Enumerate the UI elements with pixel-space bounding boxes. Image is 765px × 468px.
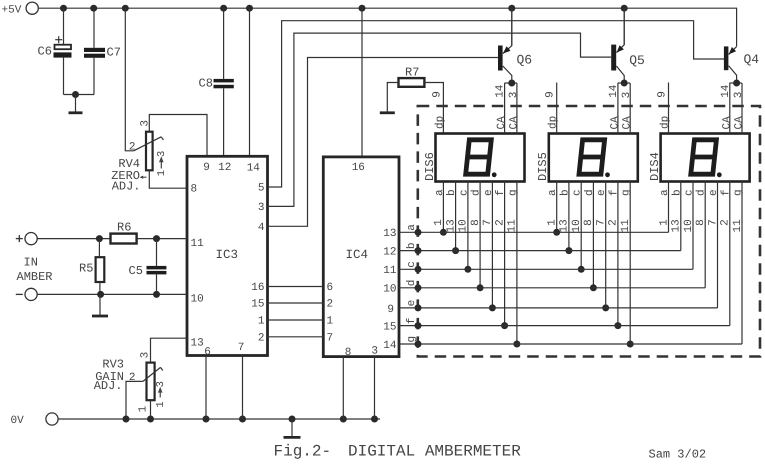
DIS6 CA pins 14 and 3 [505, 83, 517, 134]
bus line c [399, 266, 693, 273]
potentiometer RV3 [143, 363, 163, 401]
DIS6 segment letters [434, 189, 520, 196]
svg-text:11: 11 [620, 219, 632, 233]
7-segment display DIS5 [536, 134, 638, 182]
svg-text:8: 8 [470, 219, 482, 226]
svg-text:1: 1 [658, 219, 670, 226]
svg-text:8: 8 [345, 347, 352, 359]
RV4 pin 3 label [140, 120, 152, 127]
svg-text:3: 3 [155, 381, 167, 387]
svg-text:8: 8 [583, 219, 595, 226]
svg-text:10: 10 [683, 219, 695, 232]
svg-text:1: 1 [156, 170, 168, 176]
svg-text:16: 16 [352, 162, 365, 174]
wire + input to R6 [37, 235, 110, 242]
RV3 pin 2 label [129, 372, 136, 384]
svg-text:DIS6: DIS6 [423, 152, 437, 181]
caption Fig.2 DIGITAL AMBERMETER [274, 443, 522, 461]
IC3 right pin numbers 5 3 4 16 15 1 2 [251, 183, 265, 345]
wire 0V rail [58, 418, 380, 420]
svg-text:f: f [406, 317, 418, 324]
svg-text:g: g [733, 189, 745, 196]
DIS6 segment pin wires a-g [443, 182, 517, 345]
svg-text:a: a [659, 189, 671, 196]
svg-text:Sam 3/02: Sam 3/02 [649, 448, 707, 462]
svg-text:6: 6 [327, 282, 334, 294]
ground under R7 [380, 111, 395, 114]
wire Q5 emitter from +5V [623, 8, 625, 45]
wire IC3 to IC4 (15-2) [268, 302, 324, 304]
svg-text:9: 9 [203, 162, 210, 174]
svg-text:ADJ.: ADJ. [94, 379, 123, 393]
svg-text:e: e [406, 300, 418, 307]
svg-text:5: 5 [258, 183, 265, 195]
IC3 bottom pin numbers 6 7 [204, 342, 244, 358]
svg-text:f: f [720, 189, 732, 196]
bus line f [399, 322, 730, 329]
svg-text:g: g [507, 189, 519, 196]
wire IC3 to IC4 (2-7) [268, 336, 324, 338]
potentiometer RV4 [134, 132, 164, 171]
svg-text:6: 6 [204, 346, 211, 358]
capacitor C5 [129, 239, 167, 295]
wire IC3 pin 5 to Q4 base [268, 21, 724, 187]
capacitor C6 [38, 8, 72, 94]
svg-text:10: 10 [383, 284, 396, 296]
svg-text:AMBER: AMBER [17, 270, 53, 284]
svg-text:c: c [458, 189, 470, 196]
svg-text:4: 4 [258, 222, 265, 234]
RV3 rotation annotation 1-3 [155, 381, 167, 408]
svg-text:IC4: IC4 [346, 248, 369, 262]
IC4 left pin numbers 6 2 1 7 [327, 282, 334, 344]
svg-text:1: 1 [433, 219, 445, 226]
DIS5 pin 9 dp stub [556, 83, 558, 134]
svg-text:7: 7 [238, 342, 245, 354]
wire +5V to RV4 wiper [125, 8, 133, 151]
bus line g [399, 341, 742, 348]
capacitor C8 [199, 8, 234, 156]
svg-text:9: 9 [387, 304, 394, 316]
svg-text:IC3: IC3 [216, 248, 239, 262]
svg-text:1: 1 [547, 219, 559, 226]
wire R7 to DIS6 pin 9 dp [424, 83, 443, 134]
svg-text:3: 3 [371, 346, 378, 358]
transistor Q5 [611, 8, 645, 86]
caption Sam 3/02 [649, 448, 707, 462]
svg-text:C5: C5 [129, 264, 143, 278]
svg-text:c: c [572, 189, 584, 196]
wire +5V to IC3 pin 14 [249, 8, 251, 156]
wire IC3 pin 3 to Q5 base [268, 33, 612, 206]
svg-text:14: 14 [247, 163, 261, 175]
svg-text:dp: dp [434, 116, 446, 129]
wire Q6 emitter from +5V [511, 8, 513, 46]
node +5V terminal [2, 2, 39, 16]
svg-text:2: 2 [129, 372, 136, 384]
svg-text:3: 3 [140, 120, 152, 127]
svg-text:12: 12 [218, 162, 231, 174]
svg-text:3: 3 [621, 92, 633, 99]
DIS4 top pin labels [657, 84, 746, 129]
RV3 pin 3 wire to IC3 pin 13 [151, 338, 188, 362]
7-segment display DIS4 [648, 134, 750, 182]
svg-text:13: 13 [191, 337, 204, 349]
wire IC4 pin 3 to 0V [374, 357, 376, 419]
svg-text:c: c [406, 261, 418, 268]
svg-text:15: 15 [251, 299, 264, 311]
svg-text:2: 2 [258, 333, 265, 345]
svg-text:2: 2 [608, 219, 620, 226]
svg-text:14: 14 [383, 340, 397, 352]
svg-text:CA: CA [734, 116, 746, 130]
node - input terminal [16, 288, 37, 300]
svg-text:g: g [621, 189, 633, 196]
svg-text:1: 1 [327, 316, 334, 328]
RV4 pin 1 wire to IC3 pin 8 [149, 170, 187, 188]
svg-text:3: 3 [258, 202, 265, 214]
IC3 left pin numbers 8 11 10 13 [191, 184, 205, 350]
RV3 pin 2 wire to 0V [126, 381, 143, 419]
DIS5 segment pin wires a-g [557, 182, 631, 345]
svg-text:3: 3 [733, 92, 745, 99]
svg-text:e: e [596, 189, 608, 196]
resistor R5 [79, 239, 104, 295]
svg-text:DIS4: DIS4 [648, 152, 662, 181]
svg-text:13: 13 [671, 219, 683, 232]
svg-text:d: d [584, 189, 596, 196]
svg-text:12: 12 [383, 247, 396, 259]
svg-text:1: 1 [155, 401, 167, 407]
svg-text:1: 1 [258, 316, 265, 328]
label IN AMBER [17, 256, 53, 285]
DIS4 bottom pin numbers [658, 219, 744, 233]
svg-text:C7: C7 [107, 46, 121, 60]
ground on 0V rail [284, 419, 301, 437]
svg-text:13: 13 [445, 219, 457, 232]
svg-text:IN: IN [24, 256, 38, 270]
svg-text:c: c [684, 189, 696, 196]
transistor Q6 [498, 8, 532, 86]
svg-text:CA: CA [609, 116, 621, 130]
svg-text:2: 2 [129, 141, 136, 153]
svg-text:10: 10 [458, 219, 470, 232]
RV3 pin 1 label [137, 405, 149, 412]
junctions on 0V rail [123, 416, 379, 423]
bus line e [399, 304, 718, 311]
bus letters a-g at IC4 [406, 224, 418, 343]
svg-text:C8: C8 [199, 77, 213, 91]
svg-text:14: 14 [720, 84, 732, 98]
svg-text:g: g [406, 336, 418, 343]
DIS5 junctions on segment bus [553, 229, 634, 348]
RV3 pin 3 label [139, 352, 151, 359]
svg-text:7: 7 [707, 219, 719, 226]
svg-text:CA: CA [622, 116, 634, 130]
svg-text:R5: R5 [79, 262, 93, 276]
svg-text:Fig.2-: Fig.2- [274, 443, 332, 461]
wire IC3 to IC4 (1-1) [268, 319, 324, 321]
node 0V terminal [11, 413, 59, 427]
svg-text:11: 11 [732, 219, 744, 233]
DIS6 bottom pin numbers [433, 219, 519, 233]
IC4 top pin number 16 [352, 162, 365, 174]
svg-text:Q4: Q4 [744, 52, 760, 67]
DIS6 junctions on segment bus [440, 229, 521, 348]
svg-text:10: 10 [191, 294, 204, 306]
DIS4 CA pins 14 and 3 [730, 83, 742, 134]
svg-text:9: 9 [657, 91, 669, 98]
svg-text:DIS5: DIS5 [536, 152, 550, 181]
svg-text:13: 13 [559, 219, 571, 232]
svg-text:e: e [483, 189, 495, 196]
wire +5V rail [38, 8, 736, 46]
svg-text:R6: R6 [117, 221, 131, 235]
svg-text:CA: CA [721, 116, 733, 130]
svg-text:8: 8 [191, 184, 198, 196]
svg-text:+5V: +5V [2, 5, 22, 17]
wire C6/C7 common to ground [64, 91, 95, 98]
svg-text:8: 8 [695, 219, 707, 226]
svg-text:7: 7 [596, 219, 608, 226]
svg-text:11: 11 [507, 219, 519, 233]
svg-text:C6: C6 [38, 45, 52, 59]
capacitor C7 [84, 8, 121, 94]
node + input terminal [16, 233, 37, 245]
svg-text:2: 2 [327, 299, 334, 311]
svg-text:d: d [696, 189, 708, 196]
ground under C6/C7 [69, 95, 83, 113]
wire R6 to IC3 pin 11 [137, 235, 187, 242]
svg-text:13: 13 [383, 228, 396, 240]
svg-text:a: a [434, 189, 446, 196]
svg-text:11: 11 [383, 265, 397, 277]
svg-text:3: 3 [156, 151, 168, 157]
svg-text:dp: dp [548, 116, 560, 129]
DIS5 segment letters [547, 189, 633, 196]
svg-text:a: a [406, 224, 418, 231]
svg-text:ADJ.: ADJ. [112, 179, 141, 193]
svg-text:14: 14 [608, 84, 620, 98]
junctions on +5V rail [60, 5, 628, 12]
svg-text:9: 9 [431, 91, 443, 98]
svg-text:e: e [708, 189, 720, 196]
svg-text:10: 10 [571, 219, 583, 232]
wire R7 to ground [387, 83, 398, 113]
op-amp/ADC IC3 [187, 156, 268, 355]
DIS4 segment pin wires a-g [669, 182, 743, 345]
svg-text:15: 15 [383, 322, 396, 334]
svg-text:DIGITAL AMBERMETER: DIGITAL AMBERMETER [348, 443, 521, 461]
dashed display module border [418, 106, 760, 357]
IC4 bottom pin numbers 8 3 [345, 346, 378, 360]
svg-text:dp: dp [660, 116, 672, 129]
RV4 rotation annotation 1-3 [156, 151, 168, 177]
ground under R5 [92, 294, 108, 316]
IC3 top pin numbers 9 12 14 [203, 162, 260, 175]
DIS5 bottom pin numbers [547, 219, 633, 233]
svg-text:b: b [559, 189, 571, 196]
bus line a [399, 229, 669, 236]
DIS5 top pin labels [545, 84, 634, 129]
DIS4 pin 9 dp stub [668, 83, 670, 134]
svg-text:d: d [471, 189, 483, 196]
svg-text:2: 2 [494, 219, 506, 226]
wire IC4 pin 8 to 0V [342, 357, 344, 419]
RV3 pin 1 wire to 0V [150, 400, 152, 419]
svg-text:14: 14 [495, 84, 507, 98]
7-segment display DIS6 [423, 134, 525, 182]
svg-text:7: 7 [327, 333, 334, 345]
svg-text:a: a [547, 189, 559, 196]
svg-text:9: 9 [545, 91, 557, 98]
DIS6 top pin labels [431, 84, 520, 129]
svg-text:f: f [495, 189, 507, 196]
svg-text:2: 2 [720, 219, 732, 226]
svg-text:3: 3 [139, 352, 151, 359]
wire IC3 pin 6 to 0V [205, 356, 207, 420]
bus line b [399, 247, 681, 254]
wire +5V to IC4 pin 16 [361, 8, 363, 157]
resistor R7 [399, 65, 425, 86]
svg-text:b: b [446, 189, 458, 196]
RV4 pin 2 label [129, 141, 136, 153]
svg-text:16: 16 [251, 282, 264, 294]
svg-text:1: 1 [137, 405, 149, 412]
wire IC3 pin 7 to 0V [242, 356, 244, 420]
RV3 labels GAIN ADJ [94, 357, 124, 393]
svg-text:b: b [406, 242, 418, 249]
resistor R6 [111, 221, 137, 244]
svg-text:3: 3 [508, 92, 520, 99]
svg-text:d: d [406, 280, 418, 287]
svg-text:CA: CA [496, 116, 508, 130]
DIS4 segment letters [659, 189, 745, 196]
svg-text:CA: CA [508, 116, 520, 130]
svg-text:11: 11 [191, 238, 205, 250]
svg-text:0V: 0V [11, 415, 25, 427]
svg-text:f: f [608, 189, 620, 196]
svg-text:Q5: Q5 [629, 53, 645, 68]
driver IC4 [323, 157, 399, 357]
wire - input to IC3 pin 10 [37, 291, 187, 298]
RV4 pin 3 wire to IC3 pin 9 [149, 115, 207, 157]
wire IC3 pin 4 to Q6 base [268, 58, 499, 227]
DIS5 CA pins 14 and 3 [618, 83, 630, 134]
svg-text:7: 7 [482, 219, 494, 226]
svg-text:b: b [671, 189, 683, 196]
IC4 right pin numbers 13 12 11 10 9 15 14 [383, 228, 397, 352]
svg-text:Q6: Q6 [517, 53, 533, 68]
bus line d [399, 284, 705, 291]
RV4 labels ZERO ADJ [111, 157, 146, 193]
wire IC3 to IC4 (16-6) [268, 286, 324, 288]
transistor Q4 [724, 46, 759, 86]
svg-text:R7: R7 [405, 65, 419, 79]
